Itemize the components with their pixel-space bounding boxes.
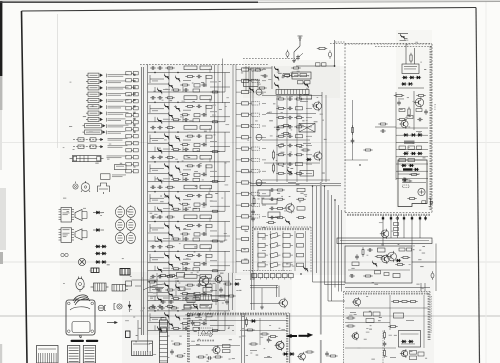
connector pinout P1 <box>86 73 103 77</box>
cap C71 <box>192 320 194 322</box>
verticals 7 <box>242 313 261 363</box>
video amp stage 9 (Q19 R29) <box>148 304 230 332</box>
left parts of chain <box>375 123 396 133</box>
legend note 2 <box>106 80 135 84</box>
resistor R201 <box>317 48 319 50</box>
box 82 <box>394 313 404 318</box>
dashed stub <box>335 41 345 43</box>
filter slug <box>404 141 415 144</box>
connector pinout P3 <box>86 86 103 90</box>
chroma ladder row 9 <box>276 172 312 176</box>
screw + clip <box>98 305 106 311</box>
trim caps <box>61 253 68 256</box>
gnd <box>293 59 295 61</box>
terminal boxes <box>316 63 327 66</box>
switch contact row 14 <box>236 215 266 218</box>
legend note 6 <box>106 105 135 109</box>
cap C204 <box>402 179 404 181</box>
antenna E1 <box>294 36 303 52</box>
resistor R82 <box>346 325 348 327</box>
IC box 8 <box>399 331 421 348</box>
switch contact row 6 <box>236 124 266 127</box>
electrolytic C302 <box>431 273 434 278</box>
jumper link W1 <box>73 138 128 141</box>
caps column <box>394 223 399 236</box>
diode pair D72 D73 <box>282 352 294 355</box>
plug connector J1 <box>91 283 109 291</box>
resistors 71 <box>223 345 231 353</box>
electrolytic C201 <box>329 52 332 57</box>
tuner segment row 4 <box>258 262 304 268</box>
video amp stage 7 (Q17 R27) <box>148 245 230 273</box>
wires 8 <box>345 295 428 348</box>
transistor Q203 <box>401 120 408 127</box>
switch contact row 10 <box>236 170 266 173</box>
jumper link W2 <box>73 145 128 148</box>
fold line <box>57 14 59 148</box>
heatsink tower 2 <box>83 346 95 363</box>
bus line d <box>233 65 236 274</box>
connector pinout P9 <box>83 124 106 128</box>
scan tone wash <box>60 30 434 363</box>
resistor R202 <box>410 53 412 55</box>
double bus <box>250 184 341 186</box>
video amp stage 1 (Q11 R21) <box>148 66 230 94</box>
IC module U2 <box>59 228 75 243</box>
switch contact row 8 <box>236 147 266 150</box>
transformer T71 <box>199 328 213 336</box>
cable loom <box>73 295 90 305</box>
delay line DL1 <box>276 90 309 95</box>
box 62 <box>203 288 212 293</box>
transistor Q303 <box>388 252 397 261</box>
value labels zone 7 <box>63 82 131 288</box>
resistor R51 <box>253 196 255 198</box>
boxes 52 <box>262 199 280 218</box>
bus pair mid <box>251 68 253 280</box>
resistor R301 <box>375 256 377 258</box>
ballast rod FR1 <box>70 156 127 162</box>
transistor socket view 3 <box>115 231 135 243</box>
micro labels central <box>282 101 311 183</box>
resistor R83 <box>388 326 390 328</box>
value labels zone 3 <box>256 72 318 98</box>
resistor R72 <box>245 329 247 331</box>
connector pinout P2 <box>86 79 103 83</box>
variable cap CV1 <box>295 53 304 60</box>
legend note 4 <box>106 93 135 97</box>
switch contact row 1 <box>236 68 266 71</box>
chain boxes upper <box>397 95 426 122</box>
transistor Q71 <box>213 346 220 353</box>
micro labels module <box>195 317 272 358</box>
shield box (dashed) <box>345 44 432 215</box>
value labels zone 4 <box>399 38 427 174</box>
transistor Q53 <box>300 266 308 275</box>
connector pinout P6 <box>86 105 103 109</box>
bottom left extra parts <box>147 273 230 310</box>
cap C61 <box>226 299 228 301</box>
electrolytic C202 <box>286 52 289 57</box>
switch contact row 4 <box>236 102 266 105</box>
transistor Q24 <box>288 171 291 173</box>
signal arrow left <box>286 334 297 338</box>
small parts supply <box>348 247 412 277</box>
switch contact row 5 <box>236 113 266 116</box>
resistor R64 <box>226 295 228 297</box>
wires 7 <box>189 321 287 346</box>
parts 83 <box>383 330 387 357</box>
dashed bus <box>140 64 268 66</box>
edge connector strip <box>252 274 293 280</box>
transistor Q22 <box>314 102 322 110</box>
boxes 81 <box>364 312 381 323</box>
connector pinout P10 <box>83 130 106 134</box>
bus line <box>147 65 149 336</box>
pilot lamp <box>76 277 84 293</box>
diode D301 <box>397 259 400 262</box>
wires to supply <box>383 221 420 247</box>
transistor Q72 <box>276 342 284 350</box>
box left edge <box>126 281 132 286</box>
transistor case Q bottom view <box>81 181 90 192</box>
resistor R73 <box>249 343 251 345</box>
heatsink tower 1 <box>68 346 80 363</box>
wire <box>395 92 397 180</box>
sound module shield <box>344 292 431 363</box>
chroma ladder row 8 <box>276 162 312 166</box>
video amp stage 4 (Q14 R24) <box>148 155 230 183</box>
chroma ladder row 7 <box>276 153 312 157</box>
parts left of coil <box>126 320 185 357</box>
video amp stage 6 (Q16 R26) <box>148 215 230 243</box>
screw head <box>78 258 85 265</box>
plug connector J2 <box>112 285 128 292</box>
horn symbol LS1 <box>75 210 87 221</box>
wire <box>405 44 407 64</box>
diode group DG2 <box>403 152 423 155</box>
diode group DG3 <box>401 164 414 167</box>
wires supply <box>345 283 430 292</box>
box small <box>300 95 312 99</box>
lamp V1 <box>73 182 78 190</box>
res row <box>282 67 300 77</box>
resistor R71 <box>246 317 248 319</box>
legend note 9 <box>106 124 135 128</box>
transistor Q201 <box>398 34 408 41</box>
chroma ladder row 1 <box>276 97 312 101</box>
vertical 6w <box>261 288 263 305</box>
diode row D201-D203 <box>402 76 421 79</box>
transistor Q61 <box>199 276 209 286</box>
switch contact row 11 <box>236 180 266 186</box>
diode group DG1 <box>403 133 423 136</box>
tuner matrix box <box>253 227 312 273</box>
wires 6x <box>132 280 167 290</box>
wire 6z <box>250 303 279 305</box>
transistor Q52 <box>286 221 289 223</box>
video amp stage 3 (Q13 R23) <box>148 126 230 154</box>
tuner segment row 2 <box>258 242 304 248</box>
speaker grille box <box>37 346 59 363</box>
crystal box <box>299 124 315 133</box>
transistor Q21 <box>305 84 308 86</box>
wire <box>435 244 437 292</box>
boxes under IC <box>298 81 311 84</box>
connector pinout P5 <box>86 98 103 102</box>
resistor R81 <box>346 317 348 319</box>
parts 72 <box>196 356 222 360</box>
parts 63 <box>223 282 239 285</box>
terminal strip TB1 <box>126 72 138 173</box>
transistor Q63 <box>280 299 288 307</box>
wire <box>413 91 415 130</box>
wire <box>412 261 436 263</box>
video amp stage 8 (Q18 R28) <box>148 275 230 303</box>
bus pair <box>141 67 143 335</box>
legend note 1 <box>106 74 135 78</box>
value labels zone 6 <box>349 250 427 360</box>
resistor R44 <box>273 150 275 152</box>
bus line c <box>222 59 224 104</box>
tuner segment row 3 <box>258 252 304 258</box>
box small 2 <box>300 171 314 177</box>
boxes row <box>399 146 422 149</box>
micro labels bottom left <box>150 279 241 306</box>
value labels zone 10 <box>191 316 285 362</box>
legend note 10 <box>106 130 135 134</box>
audio output module <box>398 160 427 207</box>
transistor Q302 <box>382 255 390 263</box>
caps 61 <box>160 300 174 304</box>
junction <box>334 65 335 66</box>
clip pair <box>114 304 122 310</box>
wire <box>334 40 336 66</box>
bus line b <box>214 65 216 183</box>
dashed v 8 <box>382 331 384 363</box>
choke dark <box>403 168 413 170</box>
wire <box>296 65 335 67</box>
transistor Q81 <box>353 298 360 305</box>
terminal row <box>382 216 427 221</box>
video amp stage 2 (Q12 R22) <box>148 96 230 124</box>
resistor R41 <box>281 125 283 127</box>
flow arrow <box>107 321 118 324</box>
IC module U1 <box>59 208 75 223</box>
switch contact row 18 <box>236 260 266 263</box>
parts 73 <box>260 333 278 343</box>
switch contact row 15 <box>236 226 266 229</box>
signal arrow right <box>299 333 313 337</box>
wire <box>414 48 416 64</box>
switch contact row 12 <box>236 192 266 195</box>
transistor Q202 <box>415 98 423 106</box>
transistor Q82 <box>352 333 358 339</box>
tuner module outline <box>66 298 95 338</box>
diode D71 <box>252 319 255 322</box>
connector pinout P4 <box>86 92 103 96</box>
switch contact row 13 <box>236 204 266 207</box>
legend note 7 <box>106 112 135 116</box>
diode row D204 D205 <box>401 82 413 85</box>
diode pair D5 D6 <box>95 252 107 255</box>
switch contact row 3 <box>236 89 266 95</box>
wires hlines <box>396 128 428 178</box>
value labels zone 5 <box>125 276 248 359</box>
tuner segment row 1 <box>258 233 304 239</box>
resistor R203 <box>408 107 410 109</box>
box 61 <box>177 273 185 278</box>
transistor Q301 <box>381 230 389 238</box>
matrix drive row 4 <box>269 216 305 220</box>
connector pinout P7 <box>86 111 103 115</box>
wire <box>398 87 424 89</box>
tuner verticals <box>258 231 306 271</box>
connector block dark <box>120 269 130 276</box>
bus line f <box>217 65 219 331</box>
resistor R62 <box>167 275 169 277</box>
chroma ladder row 3 <box>276 116 312 120</box>
legend note 8 <box>106 118 135 122</box>
top mid cluster extra <box>243 66 307 93</box>
bus line e <box>168 66 170 330</box>
part small dark <box>91 268 99 273</box>
chroma ladder row 2 <box>276 107 312 111</box>
transistor Q23 <box>314 152 322 160</box>
resistor R43 <box>301 149 303 151</box>
comb marks T71 <box>197 340 215 342</box>
mounting feet <box>71 340 99 342</box>
cap C203 <box>425 109 427 111</box>
value labels zone 9 <box>267 104 327 174</box>
resistor R204 <box>394 95 396 97</box>
small box legend <box>132 341 153 356</box>
video amp stage 5 (Q15 R25) <box>148 185 230 213</box>
matrix drive row 2 <box>269 197 305 201</box>
SAW filter <box>196 295 212 301</box>
parts bottom centre <box>325 351 338 357</box>
cap C301 <box>356 254 358 256</box>
oscillator box <box>402 64 419 74</box>
resistor R45 <box>273 163 275 165</box>
value labels zone 1 <box>150 67 229 320</box>
transistor socket view 1 <box>115 205 135 217</box>
bus corners <box>312 185 345 301</box>
IF transformer T61 <box>187 294 195 303</box>
diode D1 <box>93 211 104 214</box>
chroma ladder row 6 <box>276 144 312 148</box>
diode pair D7 D8 <box>95 260 107 263</box>
diode D2 <box>93 228 104 231</box>
speaker jack <box>429 199 433 207</box>
diode D21 <box>307 158 310 161</box>
resistor R205 <box>409 174 411 176</box>
transistor Q51 <box>286 204 294 212</box>
double line 6y <box>250 286 279 298</box>
switch contact row 7 <box>236 134 266 140</box>
chroma ladder row 4 <box>276 125 312 129</box>
connector pinout P8 <box>86 117 103 121</box>
legend note 5 <box>106 99 135 103</box>
matrix drive row 3 <box>269 207 305 211</box>
IF input box <box>244 80 259 87</box>
switch contact row 2 <box>236 79 266 82</box>
transistor trio <box>272 66 279 89</box>
resistor R61 <box>158 275 160 277</box>
resistor R63 <box>218 295 220 297</box>
bus bottom pair <box>252 273 255 310</box>
resistor R52 <box>266 222 268 224</box>
resistor R302 <box>401 257 403 259</box>
gnd 6 <box>261 305 263 307</box>
dashed feed line top <box>330 44 432 47</box>
transistor Q62 <box>215 276 222 283</box>
matrix drive row 1 <box>269 188 305 192</box>
switch contact row 17 <box>236 249 266 252</box>
transistor Q64 <box>297 351 314 361</box>
wires central <box>262 92 330 182</box>
box 46 <box>393 274 400 278</box>
boxes row 2 <box>399 159 415 162</box>
diode D62 <box>128 301 131 312</box>
dashed feed line <box>243 58 295 60</box>
wire <box>293 52 295 59</box>
shield inner parts <box>345 100 373 166</box>
dashed line conn <box>243 270 292 272</box>
micro labels chain <box>398 99 436 157</box>
transistor Q83 <box>401 350 407 356</box>
legend note 3 <box>106 86 135 90</box>
power box long <box>337 238 432 244</box>
value labels zone 2 <box>241 68 309 266</box>
IF module shield <box>188 313 290 363</box>
tube socket X1 <box>98 183 110 194</box>
IC box video <box>292 72 311 79</box>
horn symbol LS2 <box>75 229 87 240</box>
resistor R42 <box>281 133 283 135</box>
switch contact row 9 <box>236 158 266 161</box>
legend note small 2 <box>101 174 127 180</box>
chroma ladder row 5 <box>276 134 312 138</box>
verticals 6x <box>148 273 233 340</box>
power supply box <box>345 246 412 283</box>
res row 8 <box>391 301 417 303</box>
vertical bus bundle <box>313 182 342 363</box>
diode pair D3 D4 <box>95 245 107 248</box>
box 51 <box>258 190 270 196</box>
chroma verticals <box>277 96 307 182</box>
box R-pack <box>378 248 386 252</box>
value labels zone 8 <box>379 218 425 285</box>
IF coil can <box>158 318 170 363</box>
switch contact row 16 <box>236 237 266 240</box>
micro labels module 8 <box>350 312 414 358</box>
cap C41 <box>277 126 279 128</box>
vertical text border <box>431 296 432 333</box>
transistor socket view 2 <box>115 218 135 230</box>
caps col <box>251 209 255 222</box>
legend note small <box>115 165 136 170</box>
boxes 84 <box>410 351 425 360</box>
